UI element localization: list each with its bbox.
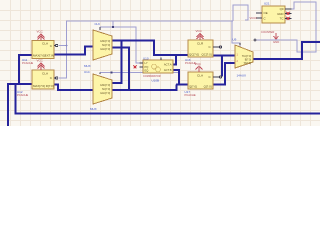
pin U1B clock stub [54, 77, 58, 79]
wire U17 out to 14AUX pin2 [213, 63, 236, 85]
power port VCC above U1A [38, 34, 45, 41]
svg-text:VCC: VCC [196, 29, 203, 33]
junction node mux U14 outA / riser [120, 39, 122, 41]
svg-text:CLA: CLA [197, 73, 204, 77]
pin mux U14 select stub [99, 27, 101, 30]
svg-text:GND: GND [277, 12, 283, 16]
svg-text:U14: U14 [84, 70, 90, 74]
svg-text:R[7:0]: R[7:0] [46, 84, 54, 88]
svg-text:SC[7:0]: SC[7:0] [102, 88, 110, 91]
pin U1A clock stub [54, 44, 58, 46]
svg-text:QC[7:0]: QC[7:0] [202, 52, 212, 56]
mux 14AUX body [235, 45, 253, 68]
svg-text:CLA: CLA [42, 71, 49, 75]
svg-text:PQ: PQ [145, 65, 149, 69]
no-ERC marker counter TC pin [287, 17, 290, 20]
power port VCC above U1B [38, 63, 45, 70]
register U17 body [188, 72, 213, 89]
svg-text:Q[7:0]: Q[7:0] [189, 84, 197, 88]
junction node mux2 select [110, 72, 112, 74]
svg-text:SC[7:0]: SC[7:0] [102, 44, 110, 47]
svg-text:MAX[7:0]: MAX[7:0] [33, 54, 45, 58]
wire 14AUX out to right edge [253, 42, 320, 59]
svg-text:VCC3: VCC3 [250, 16, 258, 20]
svg-text:Q[7:0]: Q[7:0] [204, 84, 212, 88]
svg-text:U21: U21 [264, 2, 270, 6]
power port VCC above U16 [197, 33, 204, 40]
wire left edge drop off-sheet [7, 83, 9, 126]
svg-text:ACT.A: ACT.A [164, 62, 172, 66]
svg-text:ACT.B: ACT.B [164, 68, 172, 72]
wire CLK branch up to counter U21 [233, 5, 248, 21]
svg-text:MUX: MUX [90, 107, 97, 111]
wire comparator out A [173, 55, 176, 64]
junction node U17 in [176, 83, 178, 85]
wire mux U15 out A up to node [112, 41, 122, 84]
svg-text:EQ: EQ [145, 68, 149, 72]
pin U17 clock stub [213, 76, 222, 78]
wire into U1B left pin [8, 83, 32, 85]
svg-text:VCC: VCC [195, 62, 202, 66]
svg-text:QC[7:0]: QC[7:0] [189, 52, 199, 56]
svg-text:GNC[7:0]: GNC[7:0] [100, 40, 110, 43]
svg-text:TC: TC [280, 17, 284, 21]
junction node U1B out pin [55, 84, 57, 86]
wire CLK branch to mux U14 select [100, 21, 140, 63]
svg-text:PCACHE: PCACHE [17, 93, 28, 97]
no-ERC marker comparator left pin [134, 66, 137, 69]
svg-text:VCC: VCC [37, 59, 44, 63]
junction node U1A.C / U1B.C riser [66, 45, 68, 47]
pin 14AUX select stub [239, 43, 241, 45]
junction node U1A out pin [55, 53, 57, 55]
no-ERC marker counter GND pin [287, 12, 290, 15]
junction node at U1B feed [18, 83, 20, 85]
wire branch down to U17 clock [221, 55, 223, 76]
svg-text:PCACHE: PCACHE [22, 61, 33, 65]
register U16 body [188, 40, 213, 57]
wire CLK branch down to 14AUX select [232, 21, 240, 47]
power port GND below counter [274, 33, 279, 39]
pin number marks 14AUX left pins [237, 54, 239, 64]
svg-text:GAC[7:0]: GAC[7:0] [100, 92, 110, 95]
junction node U16 out branch [221, 54, 223, 56]
power port VCC above U17 [196, 66, 203, 72]
svg-text:C: C [264, 16, 266, 20]
svg-text:L7: L7 [145, 61, 148, 65]
svg-text:CLK: CLK [95, 22, 101, 26]
wire U16 out to 14AUX [213, 54, 236, 56]
junction node mux riser at y90 [128, 89, 130, 91]
svg-text:GND: GND [273, 40, 279, 44]
svg-text:MAX[7:0]: MAX[7:0] [33, 84, 45, 88]
svg-text:14AUX: 14AUX [237, 74, 247, 78]
wire mux U15 out B to U17 in [112, 84, 177, 90]
sheet background [0, 0, 320, 126]
svg-text:CLA: CLA [42, 42, 49, 46]
pin U16 clock stub [213, 46, 222, 48]
net CLK thin wire from U1A.C up and across sheet [59, 21, 234, 46]
svg-text:U9: U9 [233, 38, 237, 42]
pin comparator left stubs [140, 58, 162, 68]
svg-text:U10B: U10B [152, 78, 160, 82]
svg-text:GAC[7:0]: GAC[7:0] [100, 48, 110, 51]
wire into U17 left pin [177, 83, 189, 85]
svg-text:PCACHE: PCACHE [185, 93, 196, 97]
pin counter stubs [256, 9, 292, 19]
svg-text:CLR: CLR [197, 41, 204, 45]
comparator U10 body [143, 60, 173, 73]
wire left vertical bus drop [18, 54, 20, 84]
svg-text:TA[7:0]: TA[7:0] [243, 62, 251, 65]
junction node comparator A / U16 in [175, 54, 177, 56]
node anchor left end of Q0 return net [254, 39, 257, 42]
wire mux U14 out B down [112, 48, 129, 91]
wire into U1A left pin [19, 54, 32, 56]
op-amp U1B body [32, 70, 54, 89]
svg-text:VCC: VCC [37, 29, 44, 33]
wire long bottom net [15, 83, 320, 113]
mux U14 body [93, 30, 112, 60]
counter U21 body [262, 6, 285, 23]
wire mux U15 select to node [100, 72, 178, 74]
svg-text:GNC[7:0]: GNC[7:0] [100, 84, 110, 87]
op-amp U1A body [32, 41, 54, 59]
wire U1B out to mux U15 in [54, 85, 93, 90]
mux U15 body [93, 74, 112, 104]
wire mux U14 out A to U16 in [112, 41, 188, 56]
svg-text:Q0: Q0 [280, 7, 284, 11]
wire counter Q0 loop around [255, 2, 316, 52]
net U1B.C riser wire [59, 46, 67, 79]
junction node CLK/mux1 select [112, 26, 114, 28]
svg-text:COUNTER: COUNTER [261, 30, 274, 34]
svg-text:U10: U10 [143, 56, 149, 60]
svg-text:EXT.IN: EXT.IN [45, 54, 54, 58]
wire U1A out to mux U14 in [54, 47, 93, 55]
svg-text:OE: OE [264, 11, 268, 15]
svg-text:MUX: MUX [84, 64, 91, 68]
wire comparator out B [173, 70, 179, 85]
pin mux U15 select stub [99, 73, 101, 74]
